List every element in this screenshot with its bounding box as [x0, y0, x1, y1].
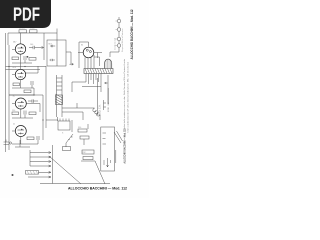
svg-text:100: 100 [30, 44, 33, 46]
svg-text:6A7: 6A7 [13, 41, 16, 44]
speaker plug arrow 3 [30, 161, 51, 163]
IF can box [47, 40, 66, 66]
label plate box [82, 150, 94, 154]
label plate box 2 [83, 157, 93, 160]
svg-text:75: 75 [13, 96, 15, 98]
mains selector box [58, 121, 70, 130]
fuse box hatch [27, 171, 38, 175]
resistor R11 [80, 136, 89, 139]
antenna coil chain loop 1 [117, 19, 121, 23]
wire V2 cathode net [12, 80, 34, 95]
svg-text:ALLOCCHIO BACCHINI — Mod. 112: ALLOCCHIO BACCHINI — Mod. 112 [68, 187, 127, 191]
speaker dome hatch [106, 60, 111, 68]
resistor R10 [78, 129, 87, 132]
svg-text:MOD. 112: MOD. 112 [108, 101, 110, 112]
volume pot arrow [70, 63, 74, 65]
resistor R9 [27, 137, 34, 140]
svg-text:MOD. C.A.: MOD. C.A. [99, 104, 102, 116]
output transformer bar [84, 69, 113, 74]
junction dot d [42, 119, 43, 120]
svg-text:ALLOCCHIO BACCHINI — Mod. 112: ALLOCCHIO BACCHINI — Mod. 112 [123, 128, 127, 163]
svg-text:I vari condensatori in uF salv: I vari condensatori in uF salvo diversa … [126, 61, 129, 133]
wire AVC bus [8, 45, 10, 150]
wire ground bus 2 [6, 69, 41, 71]
tube V1 electrodes [18, 48, 24, 52]
wire V1 plate stub [20, 33, 22, 44]
resistor R1 [19, 30, 27, 33]
wire rectifier net [62, 112, 83, 120]
coil L1 [50, 45, 55, 47]
wire output bus [97, 78, 99, 115]
resistor R6 [24, 90, 31, 93]
wire bottom left drop [52, 145, 54, 184]
wire top supply rail [8, 33, 57, 45]
tube V4 [15, 126, 26, 137]
wire V2 plate stub [20, 63, 22, 69]
power transformer hatch [56, 94, 63, 105]
wire IF link [66, 52, 71, 64]
dial box inner labels [103, 133, 107, 144]
junction dot b [24, 66, 25, 67]
dial box outline [101, 127, 115, 171]
wire comb to switch [72, 82, 101, 92]
tube V3 anode dot [21, 101, 22, 102]
wire left border bus [5, 33, 7, 152]
junction dot a [8, 66, 9, 67]
mains selector pins [60, 119, 69, 122]
wire mains lead [46, 66, 58, 128]
speaker plug arrow 4 [30, 165, 51, 167]
svg-text:350: 350 [78, 127, 81, 129]
cathode node dot V1 [27, 56, 29, 58]
filter choke loops [93, 109, 100, 117]
power transformer core hatched [56, 95, 63, 105]
PDF badge [0, 0, 51, 28]
svg-text:6D6: 6D6 [13, 67, 16, 69]
tube V4 anode dot [21, 129, 22, 130]
chassis node dot [12, 174, 14, 176]
tube V4 electrodes [18, 130, 25, 134]
capacitor C5 [24, 111, 26, 119]
transformer bar hatch [85, 69, 112, 74]
transformer pin comb [86, 74, 101, 85]
wire bottom bus [40, 183, 110, 185]
capacitor C3 [31, 81, 33, 88]
wire choke out [46, 115, 100, 120]
wire HT feed [62, 103, 95, 108]
speaker plug arrow 2 [30, 156, 51, 158]
svg-text:M.F.: M.F. [49, 44, 53, 46]
resistor R5 [13, 83, 20, 86]
tube V2 electrodes [18, 74, 24, 78]
resistor R7 [12, 112, 19, 115]
arrow feed bus [15, 140, 30, 166]
capacitor C6 [37, 136, 39, 144]
wire HT right drop [56, 29, 58, 67]
speaker lead arrow [105, 82, 108, 84]
capacitor C1 [29, 46, 39, 49]
tube V5 [83, 47, 94, 58]
speaker plug arrow 1 [30, 152, 51, 154]
wire AVC link [9, 94, 34, 96]
wire V1 cathode [12, 55, 32, 64]
dial cord diagonal 2 [81, 161, 105, 184]
node plate V1 arrow [39, 46, 44, 48]
tube V1 anode dot [21, 47, 22, 48]
pointer diagonal marks [114, 131, 123, 163]
antenna coil chain loop 3 [117, 37, 121, 41]
tube V3 [15, 98, 26, 109]
dial box tick [104, 160, 111, 165]
wire coil chain [110, 17, 119, 57]
switch S1 contacts [69, 137, 73, 140]
wire grid V2 [26, 66, 38, 73]
svg-text:42: 42 [13, 124, 15, 126]
wire right mid drop [104, 88, 109, 110]
wire ground bus 1 [6, 66, 47, 68]
svg-text:250: 250 [12, 110, 15, 112]
wire V5 grid in [78, 52, 83, 54]
fuse arrow [39, 171, 52, 173]
resistor R3 [12, 57, 19, 60]
resistor R2 [30, 30, 38, 33]
wire V3 cathode [12, 109, 33, 118]
wire speaker lead [107, 75, 109, 104]
tiny component value labels [12, 28, 124, 154]
wire V4 grid stub [12, 130, 15, 132]
pickup circle [9, 142, 11, 144]
dial cord diagonal 1 [49, 156, 81, 184]
resistor R4 [29, 58, 36, 61]
comb tie wire [82, 86, 101, 88]
fuse box hatched [26, 171, 39, 175]
page background [0, 0, 149, 198]
capacitor C2 [24, 56, 26, 63]
coil tap ticks [116, 21, 118, 46]
switch S1 [66, 134, 73, 147]
wire V2 grid stub [12, 74, 15, 76]
pickup terminal marks [4, 140, 10, 145]
tube V5 electrodes [86, 49, 91, 52]
tube V3 electrodes [18, 103, 25, 107]
dial box arrow [107, 158, 109, 167]
capacitor C4 [28, 99, 38, 102]
svg-text:ALLOCCHIO BACCHINI — Mod. 112: ALLOCCHIO BACCHINI — Mod. 112 [129, 9, 134, 60]
wire divider drops [72, 120, 88, 145]
svg-text:PDF: PDF [13, 4, 40, 24]
wire V4 cathode [12, 137, 38, 144]
tube V2 [15, 69, 25, 79]
speaker plug arrow 5 [28, 176, 51, 178]
wire grid bus V4 [27, 104, 41, 113]
tube V2 anode dot [21, 72, 22, 73]
speaker magnet dome [105, 59, 112, 68]
antenna coil chain loop 4 [117, 44, 121, 48]
wire B+ bus [9, 95, 43, 140]
wire screen drop [43, 33, 45, 60]
junction dot c [33, 94, 34, 95]
wire V5 socket leads [85, 55, 94, 68]
wire V5 plate lead [79, 42, 89, 68]
svg-text:Dispersal W la in Patrasso: Dispersal W la in Patrasso [121, 28, 124, 52]
svg-text:I valori delle resistenze sono: I valori delle resistenze sono in ohm. D… [123, 58, 126, 130]
tube V1 [15, 44, 25, 54]
wire V5 plate out [94, 53, 102, 67]
power transformer winding ladder [57, 75, 63, 117]
svg-text:RIC.: RIC. [83, 152, 87, 154]
antenna coil chain loop 2 [117, 28, 121, 32]
terminal strip box [63, 147, 71, 151]
coil L2 [50, 59, 55, 61]
wire V1 grid stub [12, 48, 15, 50]
svg-text:Ca Cb Cc Cd: Ca Cb Cc Cd [115, 38, 117, 50]
resistor R8 [29, 112, 36, 115]
wire V3 grid stub [12, 103, 15, 105]
svg-text:80: 80 [81, 45, 83, 47]
